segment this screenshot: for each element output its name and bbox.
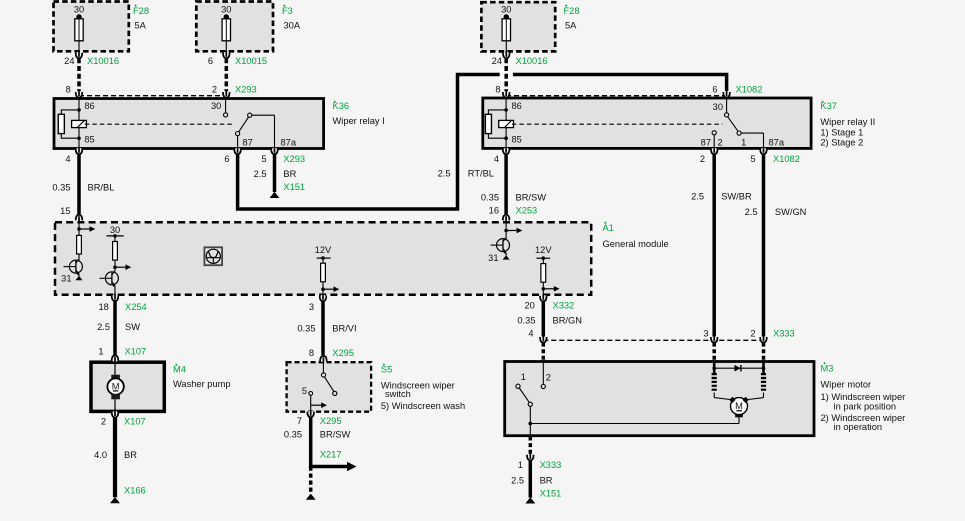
svg-text:X333: X333 [773, 328, 795, 338]
svg-text:switch: switch [385, 389, 411, 399]
svg-text:0.35: 0.35 [297, 323, 315, 333]
svg-text:M: M [112, 381, 120, 391]
svg-text:6: 6 [712, 84, 717, 94]
svg-text:12V: 12V [315, 245, 332, 255]
svg-text:X151: X151 [540, 488, 562, 498]
svg-text:X253: X253 [516, 205, 538, 215]
svg-text:A1: A1 [603, 223, 614, 233]
svg-text:1: 1 [518, 460, 523, 470]
svg-text:2: 2 [101, 416, 106, 426]
svg-text:X295: X295 [320, 416, 342, 426]
svg-text:Washer pump: Washer pump [173, 379, 231, 389]
svg-text:2.5: 2.5 [254, 169, 267, 179]
svg-text:BR/SW: BR/SW [320, 429, 351, 439]
svg-text:X333: X333 [540, 460, 562, 470]
svg-text:F3: F3 [282, 6, 293, 16]
svg-text:86: 86 [84, 101, 94, 111]
svg-text:S5: S5 [381, 365, 392, 375]
svg-text:0.35: 0.35 [284, 429, 302, 439]
svg-text:Wiper motor: Wiper motor [821, 380, 872, 390]
svg-text:31: 31 [61, 274, 71, 284]
svg-text:87: 87 [243, 137, 253, 147]
svg-text:0.35: 0.35 [517, 315, 535, 325]
svg-text:2: 2 [546, 372, 551, 382]
svg-text:31: 31 [488, 253, 498, 263]
svg-text:0.35: 0.35 [52, 183, 70, 193]
svg-text:RT/BL: RT/BL [468, 169, 494, 179]
svg-text:X107: X107 [124, 416, 146, 426]
svg-text:BR: BR [540, 475, 553, 485]
svg-text:Wiper relay I: Wiper relay I [333, 116, 385, 126]
svg-text:X332: X332 [553, 301, 575, 311]
svg-text:F28: F28 [564, 6, 580, 16]
svg-text:X293: X293 [283, 154, 305, 164]
svg-text:30: 30 [501, 5, 511, 15]
svg-text:5: 5 [261, 154, 266, 164]
svg-text:X217: X217 [320, 449, 342, 459]
svg-text:2.5: 2.5 [511, 475, 524, 485]
svg-text:X151: X151 [283, 182, 305, 192]
svg-text:5: 5 [302, 386, 307, 396]
svg-text:in park position: in park position [834, 401, 897, 411]
svg-text:2.5: 2.5 [745, 207, 758, 217]
svg-text:6: 6 [224, 154, 229, 164]
svg-text:30: 30 [713, 102, 723, 112]
svg-text:M: M [735, 401, 743, 411]
svg-text:5) Windscreen wash: 5) Windscreen wash [381, 401, 465, 411]
svg-text:4: 4 [528, 328, 533, 338]
svg-text:M4: M4 [173, 364, 186, 374]
svg-text:BR: BR [283, 169, 296, 179]
svg-text:30: 30 [74, 5, 84, 15]
svg-text:1: 1 [741, 137, 746, 147]
svg-text:2: 2 [750, 328, 755, 338]
svg-text:X1082: X1082 [736, 84, 763, 94]
svg-text:2.5: 2.5 [438, 169, 451, 179]
svg-text:18: 18 [98, 302, 108, 312]
svg-text:8: 8 [495, 84, 500, 94]
svg-text:X10015: X10015 [235, 56, 267, 66]
svg-text:BR/GN: BR/GN [553, 315, 582, 325]
svg-text:2: 2 [718, 137, 723, 147]
svg-text:24: 24 [492, 56, 502, 66]
svg-text:30A: 30A [284, 20, 301, 30]
svg-text:4.0: 4.0 [94, 450, 107, 460]
svg-text:BR/SW: BR/SW [516, 193, 547, 203]
svg-text:85: 85 [84, 134, 94, 144]
svg-text:6: 6 [208, 56, 213, 66]
svg-text:X10016: X10016 [87, 56, 119, 66]
svg-text:15: 15 [60, 206, 70, 216]
svg-text:30: 30 [110, 225, 120, 235]
svg-text:BR/BL: BR/BL [88, 183, 115, 193]
svg-text:X1082: X1082 [773, 154, 800, 164]
svg-text:87a: 87a [281, 137, 297, 147]
svg-text:5A: 5A [565, 20, 577, 30]
svg-text:SW: SW [125, 322, 140, 332]
svg-text:3: 3 [703, 328, 708, 338]
svg-text:5A: 5A [135, 20, 147, 30]
svg-text:12V: 12V [535, 245, 552, 255]
svg-text:87: 87 [701, 137, 711, 147]
svg-text:1) Stage 1: 1) Stage 1 [820, 128, 863, 138]
svg-text:General module: General module [603, 239, 669, 249]
svg-text:20: 20 [524, 301, 534, 311]
svg-text:2) Stage 2: 2) Stage 2 [820, 137, 863, 147]
svg-text:24: 24 [64, 56, 74, 66]
svg-text:8: 8 [66, 84, 71, 94]
svg-text:0.35: 0.35 [481, 193, 499, 203]
svg-text:87a: 87a [769, 137, 785, 147]
svg-text:86: 86 [512, 101, 522, 111]
svg-text:X295: X295 [332, 348, 354, 358]
svg-text:1: 1 [521, 372, 526, 382]
svg-text:16: 16 [489, 205, 499, 215]
svg-text:X107: X107 [125, 347, 147, 357]
svg-text:BR/VI: BR/VI [332, 323, 356, 333]
svg-text:30: 30 [221, 5, 231, 15]
svg-text:F28: F28 [133, 6, 149, 16]
svg-text:X10016: X10016 [516, 56, 548, 66]
svg-text:in operation: in operation [834, 422, 883, 432]
svg-text:2: 2 [212, 84, 217, 94]
svg-text:5: 5 [750, 154, 755, 164]
svg-text:3: 3 [309, 302, 314, 312]
svg-text:X293: X293 [235, 84, 257, 94]
svg-text:2.5: 2.5 [691, 191, 704, 201]
svg-text:SW/BR: SW/BR [721, 191, 752, 201]
svg-text:4: 4 [494, 154, 499, 164]
svg-text:1: 1 [98, 347, 103, 357]
svg-text:2: 2 [700, 154, 705, 164]
svg-text:30: 30 [211, 101, 221, 111]
svg-text:X254: X254 [125, 302, 147, 312]
svg-text:2.5: 2.5 [97, 322, 110, 332]
svg-text:85: 85 [512, 134, 522, 144]
svg-text:7: 7 [297, 416, 302, 426]
svg-text:8: 8 [309, 348, 314, 358]
svg-text:Wiper relay II: Wiper relay II [820, 117, 875, 127]
svg-text:4: 4 [65, 154, 70, 164]
svg-text:X166: X166 [124, 485, 146, 495]
svg-text:M3: M3 [821, 363, 834, 373]
svg-text:SW/GN: SW/GN [775, 207, 807, 217]
svg-text:BR: BR [124, 450, 137, 460]
